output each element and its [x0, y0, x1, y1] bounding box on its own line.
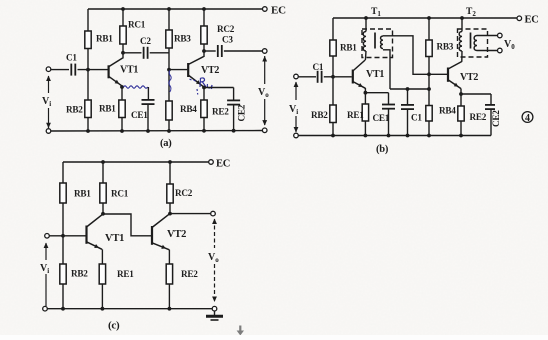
svg-text:C1: C1 — [411, 113, 422, 123]
wire: RB1 (b) top lead — [332, 18, 334, 40]
node: VT2 collector node (c) — [168, 212, 172, 216]
wire: VT2 base node down to RB4 (a) — [168, 70, 170, 101]
svg-text:RC2: RC2 — [217, 24, 235, 34]
svg-text:VT2: VT2 — [460, 72, 478, 83]
wire: RB2 top lead (c) — [62, 236, 64, 264]
node: VT2 base node (a) — [167, 68, 171, 72]
capacitor C3 (a) — [218, 45, 222, 57]
resistor RC2 (c) — [167, 184, 173, 203]
wire: RE1 bottom lead (a) — [121, 118, 123, 132]
transformer T2 core (b) — [470, 33, 472, 49]
wire: RB2 top lead (a) — [87, 70, 89, 100]
svg-text:RB4: RB4 — [180, 104, 197, 114]
wire: T2 primary top lead (b) — [461, 18, 463, 32]
grey down-arrow page decoration — [237, 326, 244, 336]
svg-text:CE2: CE2 — [491, 110, 501, 127]
node: rail junction RB4 (a) — [167, 129, 171, 133]
wire: CE2 bottom lead (b) — [490, 109, 492, 135]
svg-text:C3: C3 — [222, 35, 233, 45]
wire: RE1 bottom lead (b) — [364, 121, 366, 136]
wire: T1 primary bottom lead to VT1 collector (b) — [364, 51, 367, 60]
wire: coupling VT1 collector to VT2 base (c) — [103, 214, 151, 236]
svg-text:RC1: RC1 — [128, 20, 146, 30]
node: rail junction RB2 (b) — [331, 134, 335, 138]
node: rail junction RE1 (b) — [364, 134, 368, 138]
node: rail junction RB2 (a) — [86, 129, 90, 133]
transformer T2 dashed box (b) — [458, 29, 488, 57]
resistor RB2 (a) — [85, 100, 91, 118]
node: rail junction RE2 (c) — [168, 307, 172, 311]
input terminal bottom (c) — [43, 306, 48, 311]
svg-text:RB2: RB2 — [71, 269, 88, 279]
wire: Vi lower segment (a) — [48, 108, 50, 128]
wire: RE2 top lead (a) — [203, 88, 205, 101]
node: junction C1 mid top (b) — [406, 87, 410, 91]
resistor RE2 (b) — [458, 106, 464, 121]
wire: CE1 top lead (b) — [388, 93, 390, 105]
wire: RB3 top lead (b) — [428, 18, 430, 40]
wire: RB2 bottom lead (c) — [62, 284, 64, 309]
svg-text:VT1: VT1 — [105, 233, 124, 244]
wire: RC1 bottom lead (c) — [102, 203, 104, 214]
node: rail junction RE2 (b) — [459, 134, 463, 138]
transformer T1 dashed box (b) — [362, 29, 393, 58]
svg-text:RB2: RB2 — [311, 110, 328, 120]
node: C3 tap junction (a) — [202, 49, 206, 53]
wire: CE2 bottom lead (a) — [233, 105, 235, 131]
node: VT1 base node (a) — [86, 68, 90, 72]
wire: collector node to C2 (a) — [123, 52, 142, 54]
wire: input to VT1 base (c) — [49, 235, 85, 237]
node: rail junction C1 mid (b) — [406, 134, 410, 138]
wire: CE1 bottom lead (a) — [147, 104, 149, 131]
wire: column between nets (b) — [428, 74, 430, 89]
wire: RB4 top lead (b) — [428, 89, 430, 106]
node: rail junction CE1 (a) — [146, 129, 150, 133]
wire: emitter bypass net (b) — [390, 88, 429, 90]
wire: C1 mid bottom lead (b) — [407, 109, 409, 135]
Vo measurement arrow upper (a) — [264, 56, 266, 84]
wire: T2 secondary bottom lead (b) — [477, 50, 498, 52]
svg-text:RE2: RE2 — [470, 112, 487, 122]
wire: input to C1 (a) — [51, 69, 70, 71]
input terminal (b) — [294, 74, 299, 79]
node: VT1 emitter node (a) — [120, 85, 124, 89]
capacitor CE2 (a) — [227, 100, 240, 104]
wire: RB2 top lead (b) — [332, 77, 334, 105]
resistor RC1 (a) — [120, 26, 126, 44]
wire: CE2 top lead (b) — [490, 94, 492, 105]
output terminal bottom (a) — [262, 128, 267, 133]
wire: VT2 emitter to node (b) — [460, 89, 462, 94]
svg-text:4: 4 — [525, 113, 530, 124]
wire: input to C1 (b) — [298, 76, 316, 78]
resistor RE1 (b) — [362, 104, 368, 121]
wire: T1 primary top lead (b) — [365, 18, 367, 32]
circuit (c) EC terminal — [209, 160, 214, 165]
input terminal (a) — [46, 67, 51, 72]
resistor RB1 (b) — [330, 40, 336, 56]
node: rail junction RB2 (c) — [61, 307, 65, 311]
wire: emitter node to CE2 (a) — [204, 87, 234, 89]
wire: RE2 top lead (b) — [460, 94, 462, 106]
wire: RC1 (a) top lead — [122, 9, 124, 26]
svg-text:(a): (a) — [160, 138, 172, 149]
capacitor CE1 (a) — [142, 100, 155, 104]
resistor RB1 emitter (a) — [119, 100, 125, 118]
svg-text:RB2: RB2 — [66, 105, 83, 115]
output terminal top (a) — [262, 49, 267, 54]
svg-text:RB1: RB1 — [74, 189, 91, 199]
svg-text:CE1: CE1 — [131, 110, 148, 120]
wire: C1 to VT1 base (b) — [324, 76, 352, 78]
blue ink annotation Ru near VT2 emitter (a) — [190, 78, 213, 95]
wire: RB1 (a) top lead — [87, 9, 89, 31]
svg-text:RB4: RB4 — [439, 106, 456, 116]
resistor RE1 (c) — [99, 264, 105, 284]
svg-text:VT2: VT2 — [201, 65, 219, 76]
svg-text:RE2: RE2 — [181, 269, 198, 279]
wire: Vi lower segment (c) — [45, 274, 47, 306]
node: VT1 emitter node (b) — [364, 91, 368, 95]
transistor VT1 (b) — [353, 60, 366, 88]
node: rail junction RE1 (c) — [101, 307, 105, 311]
node: rail junction CE2 (a) — [232, 129, 236, 133]
svg-text:VT2: VT2 — [167, 229, 186, 240]
node: C2 tap junction (a) — [121, 51, 125, 55]
node: rail junction RB3 (b) — [427, 16, 431, 20]
wire: RB1 (c) top lead — [62, 162, 64, 183]
svg-text:RB3: RB3 — [437, 42, 454, 52]
wire: RB3 bottom to base node (b) — [428, 57, 430, 75]
Vi source arrow (b) — [295, 82, 297, 100]
transformer T1 primary coil (b) — [363, 32, 366, 52]
svg-text:EC: EC — [525, 15, 539, 26]
wire: RC2 bottom to collector (a) — [203, 44, 205, 57]
transformer T2 primary coil (b) — [459, 32, 462, 52]
wire: C1 mid top lead (b) — [407, 89, 409, 105]
wire: RB1 bottom to base node (b) — [332, 56, 334, 77]
transistor VT2 (a) — [188, 57, 203, 87]
svg-text:RC1: RC1 — [111, 189, 129, 199]
wire: RC2 (a) top lead — [203, 9, 205, 26]
resistor RB2 (b) — [330, 105, 336, 123]
transformer T2 secondary coil (b) — [474, 36, 477, 51]
resistor RB4 (a) — [166, 101, 172, 120]
wire: collector node to C3 (a) — [204, 50, 216, 52]
node: rail junction RE1 (a) — [120, 129, 124, 133]
capacitor C2 (a) — [144, 47, 148, 59]
Vi source arrow (c) — [45, 243, 47, 260]
node: rail junction T2 (b) — [460, 16, 464, 20]
resistor RE2 (a) — [201, 100, 207, 118]
wire: RE1 top lead (b) — [364, 93, 366, 104]
capacitor C1 (b) — [318, 71, 322, 83]
svg-text:C2: C2 — [140, 36, 151, 46]
wire: RC1 (a) bottom lead to collector — [122, 44, 124, 59]
wire: CE1 bottom lead (b) — [388, 109, 390, 136]
node: rail junction RC2 (c) — [168, 160, 172, 164]
input terminal bottom (b) — [294, 133, 299, 138]
wire: RB1 (a) bottom lead to VT1 base node — [87, 49, 89, 71]
node: rail junction RC1 (a) — [121, 7, 125, 11]
wire: T2 primary bottom lead to VT2 collector (b) — [461, 51, 463, 62]
wire: emitter node to CE2 (b) — [461, 93, 491, 95]
wire: RB4 bottom lead (b) — [428, 121, 430, 136]
wire: VT2 base wire (a) — [169, 69, 187, 71]
blue ink squiggle wire emitter to CE1 (a) — [124, 86, 148, 88]
svg-text:CE2: CE2 — [236, 104, 246, 121]
resistor RB4 (b) — [426, 106, 432, 122]
Vo terminal bottom (b) — [498, 48, 503, 53]
wire: C3 to output terminal (a) — [224, 50, 262, 52]
ground rail wire (c) — [47, 308, 213, 310]
Vi source arrow (a) — [48, 76, 50, 93]
svg-text:RB1: RB1 — [99, 104, 116, 114]
wire: Vi lower segment (b) — [295, 116, 297, 132]
svg-text:EC: EC — [216, 159, 230, 170]
transformer T1 secondary coil (b) — [381, 36, 383, 49]
node: junction column x429 (b) — [427, 87, 431, 91]
wire: RC2 (c) top lead — [169, 162, 171, 184]
svg-text:CE1: CE1 — [373, 113, 390, 123]
resistor RC1 (c) — [100, 183, 106, 203]
wire: CE2 top lead (a) — [233, 88, 235, 101]
wire: RE2 bottom lead (b) — [460, 121, 462, 136]
wire: RB3 (a) top lead — [168, 9, 170, 30]
node: rail junction RC1 (c) — [101, 160, 105, 164]
node: rail junction RB3 (a) — [167, 7, 171, 11]
node: VT1 collector node (c) — [101, 212, 105, 216]
svg-text:C1: C1 — [313, 62, 324, 72]
wire: RB2 bottom lead (b) — [332, 123, 334, 136]
resistor RB1 (a) — [85, 31, 91, 49]
node: rail junction RE2 (a) — [202, 129, 206, 133]
node: junction T1 secondary to RB3/RB4 column (b) — [427, 72, 431, 76]
wire: RC2 bottom lead (c) — [169, 203, 171, 214]
node: rail junction CE1 (b) — [387, 134, 391, 138]
svg-text:RB3: RB3 — [174, 34, 191, 44]
node: VT1 base node (b) — [331, 75, 335, 79]
svg-text:RB1: RB1 — [340, 43, 357, 53]
output terminal (c) — [211, 211, 216, 216]
svg-text:RE1: RE1 — [117, 269, 134, 279]
resistor RE2 (c) — [166, 264, 172, 284]
blue ink squiggle over RB4 column (a) — [169, 70, 171, 92]
circuit (b) EC terminal — [517, 16, 522, 21]
wire: RB3 bottom to VT2 base node (a) — [168, 48, 170, 70]
Vo measurement dashed arrow upper (c) — [214, 219, 216, 248]
transistor VT2 (c) — [152, 214, 170, 250]
transistor VT2 (b) — [448, 62, 462, 89]
capacitor CE1 (b) — [382, 105, 395, 109]
wire: RE2 bottom lead (a) — [203, 118, 205, 131]
node: rail junction RC2 (a) — [202, 7, 206, 11]
ground rail wire (b) — [298, 135, 491, 137]
ground rail wire (a) — [51, 130, 263, 133]
wire: RE1 bottom lead (c) — [101, 284, 103, 309]
ground terminal circle (c) — [212, 306, 217, 311]
circled number 4 annotation — [522, 112, 533, 124]
wire: RB2 bottom lead (a) — [87, 118, 89, 132]
Vo measurement dashed arrow lower (c) — [214, 264, 216, 301]
transformer T1 core (b) — [374, 33, 376, 49]
wire: RE2 bottom lead (c) — [168, 284, 170, 309]
transistor VT1 (c) — [87, 214, 103, 249]
wire: RE1 top lead (c) — [101, 249, 103, 264]
node: rail junction RB4 (b) — [427, 134, 431, 138]
capacitor CE2 (b) — [485, 105, 495, 109]
svg-text:RE1: RE1 — [347, 110, 364, 120]
circuit (a) EC terminal — [263, 7, 268, 12]
wire: T2 secondary top lead (b) — [477, 35, 498, 37]
ground symbol (c) — [206, 311, 223, 320]
wire: CE1 top lead (a) — [147, 87, 149, 100]
svg-text:VT1: VT1 — [366, 69, 384, 80]
transistor VT1 (a) — [109, 58, 123, 86]
svg-text:EC: EC — [271, 5, 286, 17]
wire: C2 to RB3 column (a) — [150, 52, 169, 54]
Vo measurement arrow lower (a) — [264, 99, 266, 125]
circuit (c) supply rail EC wire — [63, 161, 209, 163]
circuit (a) supply rail EC wire — [88, 8, 262, 10]
node: VT1 base node (c) — [61, 234, 65, 238]
wire: T1 secondary bottom lead (b) — [383, 50, 390, 89]
resistor RB3 (b) — [426, 40, 432, 57]
resistor RB3 (a) — [166, 30, 172, 48]
svg-text:RB1: RB1 — [96, 34, 113, 44]
wire: RE2 top lead (c) — [168, 250, 170, 264]
wire: collector to output terminal (c) — [170, 213, 211, 215]
node: VT2 emitter node (a) — [202, 86, 206, 90]
svg-text:RE2: RE2 — [212, 107, 229, 117]
svg-text:RC2: RC2 — [175, 188, 193, 198]
resistor RB2 (c) — [60, 264, 66, 284]
wire: RE1 top lead (a) — [121, 87, 123, 100]
Vo terminal top (b) — [498, 33, 503, 38]
input terminal bottom (a) — [46, 129, 51, 134]
input terminal (c) — [45, 234, 50, 239]
capacitor C1 mid (b) — [401, 105, 414, 109]
capacitor C1 (a) — [71, 64, 75, 76]
svg-text:(c): (c) — [108, 320, 120, 332]
node: rail junction T1 (b) — [364, 16, 368, 20]
circuit (b) supply rail EC wire — [333, 17, 517, 19]
resistor RB1 (c) — [60, 183, 66, 203]
wire: T1 secondary top lead (b) — [383, 36, 448, 75]
wire: RB4 bottom lead (a) — [168, 120, 170, 131]
node: VT2 emitter node (b) — [459, 92, 463, 96]
resistor RC2 (a) — [201, 26, 207, 44]
svg-text:C1: C1 — [66, 53, 77, 63]
wire: RB1 bottom to base node (c) — [62, 203, 64, 236]
wire: C1 to VT1 base (a) — [78, 69, 108, 71]
wire: emitter node to CE1 (b) — [364, 88, 366, 93]
svg-text:VT1: VT1 — [120, 65, 138, 76]
svg-text:(b): (b) — [376, 144, 389, 155]
wire: RC1 (c) top lead — [102, 162, 104, 183]
